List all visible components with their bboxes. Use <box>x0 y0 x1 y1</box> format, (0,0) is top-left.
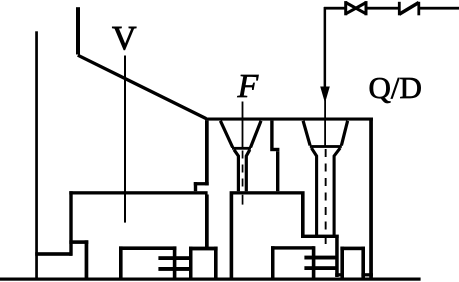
valve V2 check valve left bar <box>398 2 401 16</box>
right heater bar 1 <box>304 256 337 260</box>
right housing top <box>271 246 314 249</box>
left heater bar 2 <box>158 267 192 271</box>
left housing top <box>119 246 176 250</box>
thick vertical top-left <box>76 7 80 54</box>
F funnel cup left wall <box>220 121 232 148</box>
Q/D funnel cup left wall <box>303 121 310 146</box>
gate stub horizontal <box>194 182 209 185</box>
valve V2 check valve right bar <box>417 2 420 16</box>
V leader line <box>124 56 126 223</box>
Q/D funnel neck right <box>334 148 340 235</box>
valve V2 diagonal <box>399 3 419 15</box>
left block foot <box>85 240 89 280</box>
block M top <box>189 247 218 251</box>
funnel block wall upper <box>205 121 209 186</box>
right pin <box>312 246 316 280</box>
step vertical 2 <box>276 151 279 191</box>
pipe horizontal segment 3 <box>419 7 459 10</box>
valve V1 cross diagonals <box>346 3 366 14</box>
crucible left wall <box>230 195 234 281</box>
crucible top line B <box>230 191 305 194</box>
F funnel cup right wall <box>251 121 262 148</box>
F funnel neck right <box>246 150 250 192</box>
right housing left wall <box>271 246 275 280</box>
shelf line h31 <box>301 235 339 238</box>
F leader dashes <box>242 151 244 159</box>
Q/D funnel cup right wall <box>341 121 347 146</box>
block M left wall <box>189 247 193 280</box>
Q/D centerline dashes <box>325 149 327 157</box>
crucible right wall <box>301 195 305 239</box>
svg-text:V: V <box>112 20 137 57</box>
vertical v31 <box>335 238 339 277</box>
F funnel neck left <box>234 150 238 192</box>
chamber floor line A <box>69 191 207 194</box>
block R2 left wall <box>340 247 344 280</box>
roof slant <box>78 55 206 118</box>
mold top line <box>205 118 373 121</box>
gate stub vertical <box>194 182 197 191</box>
left housing left wall <box>119 246 123 280</box>
left block bottom <box>69 240 88 244</box>
Q/D funnel neck left <box>311 148 316 235</box>
pipe horizontal segment 1 <box>324 7 346 10</box>
sprue centerline solid (Q/D funnel) <box>324 100 326 147</box>
v31 foot <box>335 273 341 276</box>
svg-text:Q/D: Q/D <box>369 70 422 105</box>
F leader line <box>242 102 244 148</box>
funnel block wall lower <box>205 195 209 248</box>
left housing right wall <box>173 246 177 280</box>
valve V1 gate valve left bar <box>344 1 347 15</box>
block R2 right wall <box>361 247 365 280</box>
valve V1 gate valve right bar <box>365 1 368 15</box>
block R2 top <box>340 247 365 251</box>
main right wall <box>369 118 373 281</box>
Q/D funnel shelf <box>310 145 342 148</box>
right heater bar 2 <box>304 266 337 270</box>
pipe vertical <box>324 7 327 88</box>
ground line <box>0 278 421 281</box>
bottom ledge <box>35 252 72 256</box>
left block wall <box>69 191 72 256</box>
step horizontal <box>270 148 279 151</box>
arrowhead <box>320 87 330 104</box>
bottom tie bar <box>361 273 373 276</box>
block M right wall <box>214 247 218 280</box>
F funnel shelf <box>232 147 251 150</box>
left heater bar 1 <box>158 256 192 260</box>
pipe horizontal segment 2 <box>366 7 399 10</box>
outer left wall <box>35 31 38 280</box>
step vertical 1 <box>270 121 273 148</box>
svg-text:F: F <box>237 68 260 105</box>
